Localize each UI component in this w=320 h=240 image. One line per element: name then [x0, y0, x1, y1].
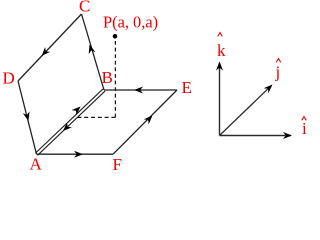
wire D-A [18, 81, 37, 154]
axis k vertical [216, 62, 223, 136]
svg-text:D: D [3, 69, 15, 88]
wire A-B lower rail [38, 91, 106, 155]
svg-text:i: i [302, 119, 307, 138]
svg-text:P(a, 0,a): P(a, 0,a) [103, 12, 158, 31]
dashed projection vertical [114, 41, 116, 118]
axis i horizontal [220, 132, 293, 139]
dashed projection horizontal [76, 116, 116, 118]
wire A-B upper rail [35, 89, 103, 153]
node P dot [113, 34, 118, 39]
wire B-E [104, 87, 177, 94]
wire A-F [37, 151, 114, 158]
wire B-C [82, 14, 105, 90]
svg-text:E: E [182, 78, 192, 97]
svg-text:j: j [275, 63, 281, 82]
wire C-D [18, 14, 82, 81]
svg-text:A: A [30, 155, 43, 174]
svg-text:B: B [102, 68, 113, 87]
axis j diagonal [220, 82, 275, 136]
svg-text:F: F [113, 155, 122, 174]
svg-text:k: k [217, 41, 226, 60]
wire F-E [113, 90, 177, 154]
svg-text:C: C [79, 0, 90, 16]
